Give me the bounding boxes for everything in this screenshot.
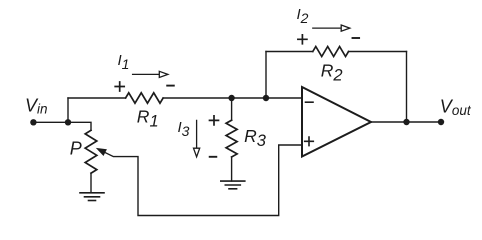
wire Vin terminal to junction <box>33 121 68 123</box>
wire R3 bottom to ground <box>231 157 233 181</box>
wire potentiometer bottom to ground <box>90 173 92 192</box>
polarity plus at R1 left <box>115 82 124 91</box>
ground under potentiometer <box>80 193 104 201</box>
svg-text:I3: I3 <box>178 119 190 139</box>
resistor R2 <box>313 47 349 57</box>
svg-text:Vin: Vin <box>25 96 48 117</box>
potentiometer wiper arrowhead <box>96 148 107 156</box>
polarity minus at R3 bottom <box>210 156 217 158</box>
svg-text:R1: R1 <box>137 106 159 130</box>
svg-text:P: P <box>70 139 82 159</box>
current arrow I2 <box>313 25 350 31</box>
node feedback junction <box>263 95 269 101</box>
wire junction to R1 left lead <box>68 97 126 99</box>
polarity minus at R2 right <box>353 37 360 39</box>
current arrow I1 <box>133 71 168 77</box>
node output junction <box>403 119 409 125</box>
terminal Vout dot <box>438 119 444 125</box>
op-amp inverting input mark <box>306 101 314 103</box>
wire feedback top-left to R2 <box>266 51 313 53</box>
node junction at Vin branch <box>65 119 71 125</box>
resistor R1 <box>126 93 164 103</box>
wire feedback right drop to output <box>406 52 408 123</box>
wire op-amp output to Vout <box>371 121 441 123</box>
node R3 top junction <box>228 95 234 101</box>
wire R1 right lead to inverting input <box>163 97 302 99</box>
svg-text:I2: I2 <box>297 6 309 26</box>
svg-text:R3: R3 <box>244 126 267 150</box>
polarity plus at R2 left <box>298 35 307 44</box>
resistor R3 <box>226 120 237 157</box>
wire R3 top lead <box>231 98 233 120</box>
potentiometer P body <box>85 130 97 173</box>
svg-text:Vout: Vout <box>440 97 472 119</box>
op-amp U1 triangle <box>302 87 371 157</box>
op-amp non-inverting input mark <box>305 137 314 146</box>
wire junction to potentiometer top <box>68 122 91 130</box>
svg-text:I1: I1 <box>118 52 130 72</box>
terminal Vin dot <box>30 119 36 125</box>
polarity minus at R1 right <box>167 85 174 87</box>
wire R2 to feedback right corner <box>349 51 407 53</box>
polarity plus at R3 top <box>210 116 219 125</box>
wire wiper to bottom rail <box>105 145 302 216</box>
wire feedback riser from node up <box>265 52 267 99</box>
current arrow I3 <box>194 120 200 156</box>
svg-text:R2: R2 <box>321 61 343 85</box>
wire riser from junction up to R1 input line <box>67 98 69 122</box>
ground under R3 <box>221 181 245 189</box>
